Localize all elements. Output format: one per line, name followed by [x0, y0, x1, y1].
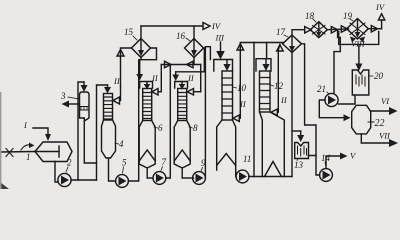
- flow arrow into hx18: [305, 27, 311, 34]
- wire vapor line to hx16: [161, 64, 200, 66]
- reactor 1 hexagon: [35, 142, 72, 162]
- column 4 packing: [104, 94, 113, 121]
- wire col10 riser to hx17: [240, 43, 283, 119]
- flow arrow before hx19: [341, 26, 347, 32]
- svg-text:17: 17: [276, 27, 286, 37]
- wire vessel 3 bottoms to column 4 riser: [84, 121, 96, 163]
- wire pump 5 outlet riser: [128, 60, 138, 181]
- svg-text:VII: VII: [379, 131, 391, 141]
- wire VI outlet: [371, 110, 390, 112]
- column 6 feed arrow internal: [146, 82, 148, 84]
- reactor internal shaft: [35, 151, 59, 153]
- svg-text:3: 3: [60, 91, 66, 101]
- shell loop VIII under hx19: [339, 32, 379, 45]
- arrow into vessel 3 top: [83, 82, 85, 85]
- valve into column 6: [152, 89, 158, 96]
- wire VII outlet: [361, 134, 390, 143]
- wire hx19 outlet to IV: [368, 28, 381, 30]
- flow arrow after hx19: [371, 26, 377, 33]
- svg-text:1: 1: [26, 152, 31, 162]
- column 10 bottom chevron: [217, 154, 236, 166]
- wire hx15 left vertex to column 4 reflux riser: [121, 48, 132, 86]
- wire pump 14 outlet to V: [326, 156, 340, 169]
- wire vessel 13 outlet to pump 14: [309, 156, 320, 176]
- pump 11: [236, 170, 249, 183]
- wire pump 9 outlet riser to column 10: [205, 47, 210, 178]
- wire riser to valve col4: [120, 86, 122, 101]
- valve into column 12: [271, 109, 277, 116]
- svg-text:4: 4: [119, 139, 124, 149]
- svg-text:II: II: [280, 95, 288, 105]
- wire hx18 to hx19: [327, 28, 348, 31]
- wire branch down to pump 21: [334, 30, 340, 94]
- valve into column 4: [113, 97, 120, 104]
- hx16 bottom stub: [193, 58, 195, 65]
- svg-text:15: 15: [124, 27, 134, 37]
- arrow outlet left from vessel 3: [68, 103, 80, 105]
- separator 22: [352, 105, 371, 134]
- svg-text:II: II: [187, 73, 195, 83]
- wire column 4 bottoms to pump 5: [109, 158, 116, 181]
- hx 15 condenser: [132, 39, 151, 58]
- wire col12 riser to hx17: [278, 45, 280, 113]
- svg-text:11: 11: [243, 154, 251, 164]
- wire VIII loop down to vessel 20: [358, 44, 360, 63]
- vessel 20: [352, 70, 369, 95]
- wire pump 11 outlet: [249, 176, 292, 178]
- wire hx16 outlet to column 8 feed: [176, 48, 205, 72]
- wire col8 reflux riser: [200, 65, 202, 92]
- flow arrow up on riser: [117, 50, 124, 57]
- column 12 body: [260, 112, 285, 177]
- wire feed I into reactor: [33, 128, 48, 134]
- svg-text:II: II: [151, 73, 159, 83]
- arrow into reactor top: [45, 134, 51, 141]
- column 12 bottom chevron: [265, 162, 282, 177]
- svg-text:20: 20: [374, 71, 384, 81]
- wire vessel 20 bottoms to pump 21: [339, 95, 356, 104]
- wire riser to vessel 3: [78, 82, 84, 180]
- arrow feed III: [220, 42, 222, 51]
- wire branch to vessel 13: [292, 130, 301, 132]
- hx 16 condenser: [185, 39, 204, 58]
- wire pump 7 outlet riser: [166, 65, 171, 179]
- svg-text:2: 2: [67, 158, 72, 168]
- wire pump 21 outlet to separator 22: [319, 100, 343, 118]
- column 8 packing: [178, 89, 187, 121]
- hx 18 heater: [310, 22, 327, 38]
- column 12 top box: [256, 59, 271, 71]
- column 6 top cap: [140, 82, 153, 89]
- pump 7: [153, 172, 166, 185]
- column 10 top box: [214, 60, 233, 72]
- pump 9 inlet: [182, 177, 193, 179]
- wire hx15 top to IV header: [140, 26, 142, 39]
- flow arrow right: [165, 61, 172, 67]
- svg-text:8: 8: [193, 123, 198, 133]
- valve X on reactor inlet: [6, 149, 13, 157]
- wire pump2 outlet to risers: [71, 179, 97, 181]
- column 8 top cap: [175, 82, 188, 89]
- svg-text:6: 6: [158, 123, 163, 133]
- column 6 packing: [143, 89, 152, 121]
- pump 2: [58, 173, 71, 186]
- column 8 feed arrow internal: [181, 82, 183, 84]
- column 8 bottom chevron: [174, 150, 190, 161]
- pump 9: [193, 172, 206, 185]
- pump 5: [116, 175, 129, 188]
- svg-text:7: 7: [162, 157, 167, 167]
- wire feed down into column 6: [139, 60, 141, 74]
- arrow IV left: [203, 23, 210, 30]
- svg-text:VI: VI: [381, 96, 390, 106]
- hx15 bottom stub: [140, 58, 142, 60]
- svg-text:16: 16: [176, 31, 186, 41]
- column 10 feed arrow internal: [226, 60, 228, 64]
- arrow into column 4 top: [107, 85, 109, 87]
- column 6 body: [139, 121, 155, 162]
- wire hx16 top: [193, 26, 195, 39]
- hx 19 cooler: [347, 19, 369, 40]
- wire IV header: [141, 25, 203, 27]
- wire feed down into column 8: [175, 72, 177, 75]
- valve into column 10: [233, 115, 239, 122]
- pump 7 inlet: [147, 177, 153, 179]
- wire riser to column 12 feed: [253, 42, 255, 176]
- flow arrow up col12 riser: [277, 45, 284, 51]
- wire up to node IV right: [381, 20, 383, 29]
- wire hx15 outlet to column 6 feed: [140, 48, 157, 60]
- wire hx17 top to hx18: [292, 30, 305, 35]
- vessel 13: [295, 143, 309, 159]
- svg-text:21: 21: [317, 84, 326, 94]
- column 10 outlet to pump 11: [217, 166, 236, 177]
- wire hx17 bottoms long drop: [291, 53, 293, 177]
- svg-text:II: II: [113, 76, 121, 86]
- pump 21: [325, 93, 338, 106]
- vessel 3: [80, 92, 90, 121]
- flow arrow after hx18: [331, 27, 337, 34]
- column 8 body: [174, 121, 190, 162]
- agitator arrow on reactor 1: [21, 145, 32, 150]
- column 10 packing ladder: [222, 71, 233, 120]
- svg-text:13: 13: [294, 160, 304, 170]
- column 6 funnel outlet: [139, 161, 155, 168]
- column 12 packing ladder: [260, 71, 271, 112]
- corner smudge bottom left: [0, 182, 9, 189]
- svg-text:III: III: [215, 33, 226, 43]
- svg-text:22: 22: [375, 118, 385, 129]
- svg-text:5: 5: [122, 158, 127, 168]
- column 12 feed arrow internal: [265, 60, 267, 65]
- wire reactor to pump 2: [55, 162, 58, 183]
- flow arrow left: [187, 61, 194, 67]
- svg-text:10: 10: [237, 83, 247, 93]
- column 8 funnel outlet: [174, 161, 190, 168]
- wire reactor inlet line left: [0, 151, 35, 154]
- flow arrow up col10 riser: [237, 44, 244, 50]
- column 4 body: [102, 120, 116, 158]
- hx 17 condenser: [283, 35, 302, 53]
- column 10 body: [217, 120, 236, 166]
- valve into column 8: [187, 89, 193, 96]
- wire hx17 outlet right to vessel 13: [302, 44, 317, 156]
- wire riser to column 4: [97, 85, 108, 180]
- wire col6 reflux riser: [160, 65, 162, 92]
- pump 14: [320, 169, 333, 182]
- column 6 bottom chevron: [139, 150, 155, 161]
